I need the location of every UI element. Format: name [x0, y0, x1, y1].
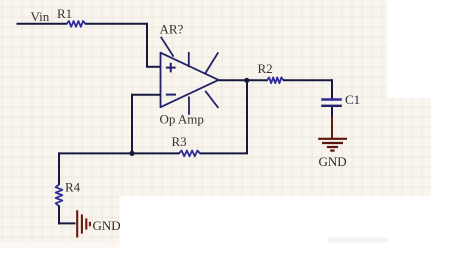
- resistor R2: [267, 77, 284, 83]
- resistor R3: [179, 151, 200, 157]
- svg-text:Vin: Vin: [31, 9, 50, 24]
- wire to op-amp plus input: [146, 66, 161, 68]
- resistor R4: [56, 185, 63, 207]
- ground GND under C1 : stem: [331, 117, 333, 138]
- svg-text:GND: GND: [93, 218, 121, 233]
- resistor R1: [67, 21, 86, 27]
- ground GND under C1 : bars: [318, 139, 347, 151]
- faint band below left beige block: [0, 243, 120, 249]
- wire op-amp output: [219, 79, 269, 81]
- op-amp pin stub vertical V-: [188, 97, 190, 115]
- wire C1 bottom pin: [331, 107, 333, 118]
- wire R1 to corner: [85, 23, 148, 25]
- svg-text:R2: R2: [258, 61, 273, 76]
- wire feedback left segment: [58, 152, 180, 154]
- svg-text:R3: R3: [172, 134, 187, 149]
- wire corner to ground: [58, 222, 76, 224]
- svg-text:R1: R1: [57, 6, 72, 21]
- wire R2 to corner: [283, 79, 333, 81]
- junction output node: [244, 78, 249, 83]
- svg-text:R4: R4: [65, 180, 81, 195]
- op-amp minus sign: [166, 94, 176, 96]
- wire corner down: [146, 23, 148, 67]
- svg-text:AR?: AR?: [160, 22, 184, 37]
- svg-text:C1: C1: [345, 92, 360, 107]
- capacitor C1 bottom plate: [321, 105, 342, 107]
- capacitor C1 top plate: [321, 98, 342, 100]
- junction feedback node: [129, 151, 134, 156]
- op-amp pin stub diagonal bottom-right: [205, 91, 218, 108]
- wire junction up to minus input: [131, 94, 133, 154]
- svg-text:Op Amp: Op Amp: [160, 111, 204, 126]
- op-amp pin stub vertical V+: [188, 52, 190, 67]
- wire down to R4: [58, 152, 60, 185]
- wire to op-amp minus input: [131, 94, 161, 96]
- op-amp plus sign: [166, 63, 176, 73]
- wire corner down to C1: [331, 79, 333, 99]
- svg-text:GND: GND: [319, 154, 347, 169]
- wire feedback right segment: [200, 152, 249, 154]
- wire Vin to R1: [17, 23, 68, 25]
- op-amp pin stub diagonal top-right: [205, 52, 218, 74]
- ground GND left : bars: [77, 210, 90, 237]
- faint smudge bottom right: [328, 238, 388, 243]
- wire output junction down: [246, 80, 248, 154]
- op-amp pin stub diagonal top-left: [161, 37, 174, 57]
- op-amp U1 triangle: [161, 53, 219, 107]
- wire R4 down: [58, 206, 60, 225]
